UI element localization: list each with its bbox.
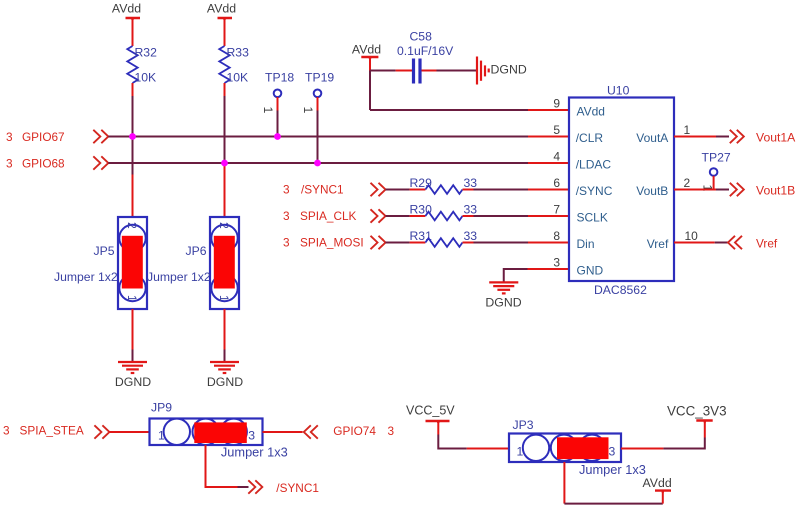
wire JP5 to DGND (red) xyxy=(132,309,134,350)
svg-text:AVdd: AVdd xyxy=(577,105,605,119)
pin 9 AVdd xyxy=(553,97,605,119)
wire GPIO67 stub to /CLR (red) xyxy=(528,136,569,138)
svg-text:1: 1 xyxy=(301,107,315,114)
power symbol AVdd (top-left #1) xyxy=(112,2,141,21)
wire JP9 to GPIO74 (red) xyxy=(263,431,303,433)
wire GPIO68 (maroon) xyxy=(108,162,528,164)
svg-text:1: 1 xyxy=(517,445,524,459)
wire TP18 to GPIO67 maroon xyxy=(277,111,279,137)
svg-text:1: 1 xyxy=(261,107,275,114)
svg-text:AVdd: AVdd xyxy=(112,2,141,16)
svg-text:SPIA_STEA: SPIA_STEA xyxy=(20,424,84,438)
svg-text:/LDAC: /LDAC xyxy=(576,158,612,172)
net flag Vout1B xyxy=(730,183,796,198)
wire R29 to /SYNC (maroon) xyxy=(474,189,529,191)
node junction R33/GPIO68 xyxy=(221,160,228,167)
wire pin 9 stub (red) xyxy=(528,109,569,111)
svg-text:Jumper 1x2: Jumper 1x2 xyxy=(54,270,118,284)
wire AVdd4 stem (red) xyxy=(662,492,664,504)
wire R29 right pin (red) xyxy=(463,189,474,191)
svg-text:Vout1B: Vout1B xyxy=(756,184,795,198)
wire bottom horizontal (maroon) xyxy=(564,503,662,505)
wire to JP5 top (red) xyxy=(132,175,134,218)
svg-text:DAC8562: DAC8562 xyxy=(594,283,647,297)
svg-text:1: 1 xyxy=(158,429,165,443)
resistor R32 xyxy=(127,46,157,85)
svg-text:JP5: JP5 xyxy=(94,244,115,258)
svg-text:JP6: JP6 xyxy=(186,244,207,258)
svg-text:1: 1 xyxy=(217,295,231,302)
pin 4 /LDAC xyxy=(553,150,611,172)
net flag GPIO67 xyxy=(6,130,108,144)
svg-text:6: 6 xyxy=(553,176,560,190)
pin 5 /CLR xyxy=(553,123,603,145)
ground DGND (JP6) xyxy=(207,362,243,389)
svg-text:7: 7 xyxy=(553,203,560,217)
wire JP9 pin2 down (red) xyxy=(206,445,238,487)
svg-text:3: 3 xyxy=(6,157,13,171)
svg-text:JP3: JP3 xyxy=(513,418,534,432)
net flag SPIA_STEA xyxy=(3,424,109,439)
svg-text:3: 3 xyxy=(3,424,10,438)
svg-text:SCLK: SCLK xyxy=(577,211,608,225)
wire SPIA_STEA to JP9 (red) xyxy=(109,431,149,433)
svg-text:GPIO67: GPIO67 xyxy=(22,130,65,144)
net flag Vref xyxy=(728,236,778,251)
power symbol AVdd (bottom) xyxy=(643,476,672,493)
pin 8 Din xyxy=(553,229,594,251)
wire AVdd2 stem xyxy=(224,19,226,46)
pin 1 VoutA xyxy=(636,123,690,145)
resistor R30 xyxy=(410,203,478,221)
svg-text:Jumper 1x3: Jumper 1x3 xyxy=(579,462,646,477)
net flag SPIA_MOSI xyxy=(283,236,386,250)
svg-text:C58: C58 xyxy=(410,30,433,44)
svg-text:33: 33 xyxy=(464,176,478,190)
capacitor C58 xyxy=(397,30,454,84)
pin 3 GND xyxy=(553,256,603,278)
wire to /SYNC1 flag (maroon) xyxy=(238,486,249,488)
wire Vref (maroon) xyxy=(715,242,728,244)
wire JP5 gnd tail (maroon) xyxy=(132,350,134,362)
wire TP19 to GPIO68 maroon xyxy=(317,111,319,164)
svg-text:GPIO68: GPIO68 xyxy=(22,157,65,171)
svg-text:GPIO74: GPIO74 xyxy=(333,424,376,438)
ground DGND (JP5) xyxy=(115,362,151,389)
testpoint TP27 xyxy=(701,151,731,192)
wire to VCC_3V3 (maroon) xyxy=(663,438,704,449)
wire R33 bottom red xyxy=(224,83,226,96)
svg-text:3: 3 xyxy=(553,256,560,270)
wire JP3 pin3 right (red) xyxy=(621,448,663,450)
wire AVdd1 stem xyxy=(132,19,134,46)
svg-text:R30: R30 xyxy=(410,203,433,217)
wire AVdd3 to C58 left (maroon) xyxy=(370,70,396,72)
jumper JP9 xyxy=(150,401,288,460)
wire AVdd3 down leg (maroon) xyxy=(369,71,371,111)
svg-text:AVdd: AVdd xyxy=(207,2,236,16)
wire pin 8 stub (red) xyxy=(528,242,569,244)
svg-text:DGND: DGND xyxy=(115,375,151,389)
ground DGND (sideways, right of C58) xyxy=(477,57,527,85)
svg-text:/CLR: /CLR xyxy=(576,131,604,145)
svg-text:Jumper 1x3: Jumper 1x3 xyxy=(221,444,288,459)
wire R30 to SCLK (maroon) xyxy=(474,215,529,217)
wire R32 to JP5 (maroon) xyxy=(132,96,134,175)
svg-text:R33: R33 xyxy=(227,46,250,60)
svg-text:/SYNC: /SYNC xyxy=(576,184,613,198)
wire SPIA_MOSI to R31 (maroon) xyxy=(386,242,410,244)
svg-text:33: 33 xyxy=(464,229,478,243)
wire TP18 stub red xyxy=(277,97,279,111)
wire AVdd3 stem xyxy=(369,58,371,71)
pin 2 VoutB xyxy=(636,176,690,198)
wire GPIO68 to JP6 top (red) xyxy=(224,163,226,217)
net flag SPIA_CLK xyxy=(283,209,386,223)
wire R30 left pin (red) xyxy=(410,215,426,217)
svg-text:5: 5 xyxy=(553,123,560,137)
wire Vref stub (red) xyxy=(674,242,715,244)
wire C58 to DGND (maroon) xyxy=(437,70,477,72)
svg-text:Vref: Vref xyxy=(756,237,778,251)
net flag GPIO74 xyxy=(304,424,395,439)
svg-text:VoutA: VoutA xyxy=(636,131,668,145)
svg-text:DGND: DGND xyxy=(491,63,527,77)
wire R29 left pin (red) xyxy=(410,189,426,191)
svg-text:AVdd: AVdd xyxy=(352,43,381,57)
svg-text:TP18: TP18 xyxy=(265,71,294,85)
wire JP6 to DGND (red) xyxy=(224,309,226,350)
power symbol AVdd (near C58) xyxy=(352,43,381,60)
svg-text:1: 1 xyxy=(125,295,139,302)
svg-text:R31: R31 xyxy=(410,229,433,243)
wire to JP3 pin1 (red) xyxy=(467,448,509,450)
jumper JP3 xyxy=(509,418,646,477)
resistor R31 xyxy=(410,229,478,247)
svg-text:3: 3 xyxy=(283,209,290,223)
svg-text:2: 2 xyxy=(125,222,139,229)
svg-text:VoutB: VoutB xyxy=(636,184,668,198)
svg-text:DGND: DGND xyxy=(485,296,521,310)
svg-text:DGND: DGND xyxy=(207,375,243,389)
svg-text:3: 3 xyxy=(283,236,290,250)
wire VCC_5V stem (red) xyxy=(437,422,439,435)
resistor R29 xyxy=(410,176,478,194)
node junction TP19/GPIO68 xyxy=(314,160,321,167)
pin 6 /SYNC xyxy=(553,176,612,198)
wire SPIA_CLK to R30 (maroon) xyxy=(386,215,410,217)
svg-text:VCC_3V3: VCC_3V3 xyxy=(667,404,727,419)
svg-text:0.1uF/16V: 0.1uF/16V xyxy=(397,44,454,58)
svg-text:SPIA_MOSI: SPIA_MOSI xyxy=(300,236,364,250)
wire TP19 stub red xyxy=(317,97,319,111)
svg-text:2: 2 xyxy=(217,222,231,229)
svg-text:/SYNC1: /SYNC1 xyxy=(301,183,344,197)
wire R31 to Din (maroon) xyxy=(474,242,529,244)
wire VoutA stub (red) xyxy=(674,136,716,138)
svg-text:GND: GND xyxy=(577,264,604,278)
net flag Vout1A xyxy=(730,130,796,145)
svg-text:VCC_5V: VCC_5V xyxy=(406,404,455,418)
wire JP3 pin2 down (red) xyxy=(563,462,565,504)
wire VoutB stub (red) xyxy=(674,189,716,191)
net flag /SYNC1 (bottom) xyxy=(248,480,319,495)
svg-text:10K: 10K xyxy=(227,71,249,85)
wire GPIO67 (maroon) xyxy=(108,136,528,138)
wire pin 6 stub (red) xyxy=(528,189,569,191)
wire JP6 gnd tail (maroon) xyxy=(224,350,226,362)
wire R31 right pin (red) xyxy=(463,242,474,244)
net flag GPIO68 xyxy=(6,156,108,170)
pin 10 Vref xyxy=(647,229,698,251)
ground DGND (below chip) xyxy=(485,282,521,309)
svg-text:Din: Din xyxy=(577,237,595,251)
wire R30 right pin (red) xyxy=(463,215,474,217)
svg-text:Vout1A: Vout1A xyxy=(756,131,796,145)
power symbol AVdd (top-left #2) xyxy=(207,2,236,21)
svg-text:Vref: Vref xyxy=(647,237,669,251)
svg-text:Jumper 1x2: Jumper 1x2 xyxy=(147,270,211,284)
wire GND pin 3 stub (red) xyxy=(528,268,570,270)
wire TP27 stub (red) xyxy=(713,176,715,190)
svg-text:U10: U10 xyxy=(607,84,630,98)
svg-text:3: 3 xyxy=(388,424,395,438)
svg-text:JP9: JP9 xyxy=(151,401,172,415)
wire R32 bottom red xyxy=(132,83,134,96)
svg-text:33: 33 xyxy=(464,203,478,217)
svg-text:R32: R32 xyxy=(135,46,158,60)
svg-text:8: 8 xyxy=(553,229,560,243)
testpoint TP19 xyxy=(301,71,334,114)
wire /SYNC1 to R29 (maroon) xyxy=(386,189,410,191)
pin 7 SCLK xyxy=(553,203,608,225)
svg-text:4: 4 xyxy=(553,150,560,164)
svg-text:2: 2 xyxy=(684,176,691,190)
svg-text:R29: R29 xyxy=(410,176,433,190)
wire VoutA (maroon) xyxy=(716,136,729,138)
resistor R33 xyxy=(219,46,249,85)
svg-text:/SYNC1: /SYNC1 xyxy=(276,481,319,495)
wire VCC_5V elbow (maroon) xyxy=(438,435,467,449)
svg-text:3: 3 xyxy=(6,130,13,144)
power symbol VCC_5V xyxy=(406,404,455,424)
wire GND corner (maroon) xyxy=(504,269,528,282)
power symbol VCC_3V3 xyxy=(667,404,727,423)
wire R31 left pin (red) xyxy=(410,242,426,244)
wire C58 left pin (red) xyxy=(396,70,412,72)
svg-text:TP27: TP27 xyxy=(702,151,731,165)
jumper JP5 xyxy=(54,217,147,309)
svg-text:9: 9 xyxy=(553,97,560,111)
testpoint TP18 xyxy=(261,71,294,114)
svg-text:10K: 10K xyxy=(135,71,157,85)
jumper JP6 xyxy=(147,217,239,309)
wire pin 7 stub (red) xyxy=(528,215,569,217)
svg-text:3: 3 xyxy=(283,183,290,197)
wire R33 to GPIO68 (maroon) xyxy=(224,96,226,163)
wire VCC_3V3 stem (red) xyxy=(704,421,706,438)
svg-text:TP19: TP19 xyxy=(305,71,334,85)
svg-text:3: 3 xyxy=(248,429,255,443)
wire VoutB (maroon) xyxy=(716,189,729,191)
svg-text:SPIA_CLK: SPIA_CLK xyxy=(300,209,357,223)
svg-text:10: 10 xyxy=(685,229,699,243)
node junction R32/GPIO67 xyxy=(129,133,136,140)
wire to pin 9 (maroon) xyxy=(370,109,528,111)
wire GPIO68 stub to /LDAC (red) xyxy=(528,162,569,164)
node junction TP18/GPIO67 xyxy=(274,133,281,140)
net flag /SYNC1 xyxy=(283,183,386,197)
svg-text:1: 1 xyxy=(684,123,691,137)
op-amp U10 DAC8562 body xyxy=(569,84,674,298)
wire C58 right pin (red) xyxy=(422,70,437,72)
svg-text:AVdd: AVdd xyxy=(643,476,672,490)
svg-text:3: 3 xyxy=(609,445,616,459)
